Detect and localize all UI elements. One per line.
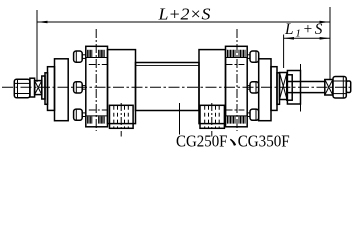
right port boss [200, 105, 224, 128]
L1+S left extension line [283, 35, 285, 69]
right stud top [247, 51, 259, 62]
right rod tip [346, 81, 350, 93]
right stud bottom [247, 109, 259, 120]
right rod X-box [280, 73, 288, 100]
left stud bottom [74, 109, 86, 120]
dimension L1+S line [284, 37, 330, 39]
left port boss [110, 105, 134, 128]
right flange top thread hatch [226, 50, 247, 65]
leader line [179, 103, 181, 135]
right rod nut [333, 77, 346, 99]
right extension line [329, 7, 331, 80]
left flange bottom thread hatch [87, 110, 108, 124]
left rod collar [30, 78, 35, 97]
left rod nut [14, 79, 30, 98]
right flange bottom thread hatch [226, 110, 247, 124]
right gland plate [277, 73, 280, 105]
L1+S right arrowhead [320, 37, 330, 40]
right rod spacer sleeve [287, 71, 300, 105]
right stud middle [247, 82, 259, 93]
left gland plate 2 [45, 73, 48, 105]
left flange centerline [95, 29, 97, 131]
dimension L+2xS line [37, 21, 330, 23]
left flange top thread hatch [87, 50, 108, 65]
svg-text:L1+S: L1+S [284, 21, 324, 40]
right flange plate [226, 46, 248, 127]
left rod X-box [35, 81, 42, 95]
right head block [199, 50, 226, 124]
left gland step [48, 67, 55, 111]
ideographic comma [230, 139, 236, 146]
svg-text:CG350F: CG350F [238, 132, 290, 149]
left arrowhead [37, 21, 48, 24]
L1+S left arrowhead [284, 37, 294, 40]
cylinder tube [136, 63, 200, 111]
right rod [287, 81, 325, 83]
left port centerline [120, 103, 122, 137]
svg-text:CG250F: CG250F [176, 132, 228, 149]
right rod end X-box [325, 80, 333, 96]
right flange centerline [236, 29, 238, 131]
left gland plate 1 [42, 76, 45, 99]
left stud middle [74, 82, 86, 93]
right port centerline [211, 103, 213, 137]
left stud top [74, 51, 86, 62]
right arrowhead [320, 21, 331, 24]
left extension line [36, 10, 38, 82]
right gland step [271, 67, 277, 111]
left gland body [55, 59, 69, 121]
main horizontal centerline [2, 86, 353, 88]
svg-text:L+2×S: L+2×S [157, 4, 210, 23]
left flange plate [86, 46, 108, 127]
left head block [108, 50, 136, 124]
right gland body [259, 59, 271, 121]
spacer end face line [300, 64, 302, 112]
